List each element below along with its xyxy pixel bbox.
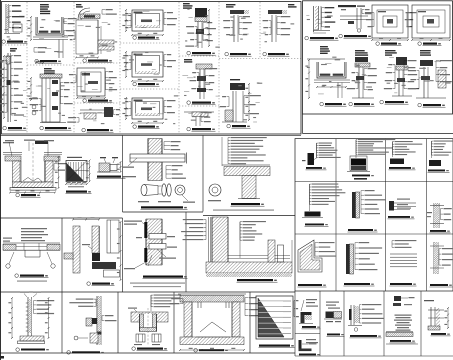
tee bottom circle <box>357 29 360 32</box>
P5 stepped slabs <box>98 40 114 44</box>
H1b title <box>299 354 316 356</box>
panel C3 title <box>132 347 136 351</box>
cell G5 dark pile cap bar <box>305 212 321 217</box>
detail panel R6 dense section <box>355 50 365 51</box>
grid cell G6 wall detail <box>352 192 356 218</box>
shaft dark floor slab <box>92 262 116 269</box>
pool dims <box>11 298 13 338</box>
panel P7 title <box>82 128 86 132</box>
P16 base step <box>225 110 233 121</box>
middle-left bottom border <box>0 217 123 219</box>
detail panel P8 plan view <box>132 10 163 31</box>
pipe flange disks <box>162 184 166 196</box>
shaft lower box <box>104 270 120 277</box>
pit mound <box>200 322 212 332</box>
B1 slab hatched ends <box>3 242 60 244</box>
cell G10 title <box>344 283 370 285</box>
pipe leaders lower <box>165 166 167 179</box>
panel R3 title <box>376 42 380 46</box>
shaft right wall <box>92 226 99 253</box>
panel C1 title <box>16 348 20 352</box>
roof column stem <box>242 176 256 199</box>
shaft left ground slab <box>64 253 73 259</box>
detail panel R2 drain tee detail <box>338 5 356 7</box>
grid cell G8 steel plate column <box>433 203 435 228</box>
panel P2 title <box>3 126 7 130</box>
passage mid cluster <box>92 318 97 324</box>
top-left dashed column dividers <box>26 2 28 134</box>
panel B3 title <box>143 276 183 278</box>
roof slab hatched section <box>222 164 270 166</box>
detail panel M5 roof slab text list <box>227 138 229 164</box>
detail panel C4 sump pit detail <box>178 293 246 295</box>
detail panel C2 passage node <box>96 296 98 345</box>
grate dims <box>89 161 91 182</box>
bottom band borders <box>0 352 295 354</box>
detail panel P12 joint section dense <box>184 59 192 60</box>
panel P4 title <box>40 126 44 130</box>
pit floor finish lines <box>3 152 22 154</box>
cell G2 dark membrane block <box>350 156 367 171</box>
panel M2 title <box>66 191 87 193</box>
middle band vertical dividers <box>122 135 124 212</box>
detail panel P2 tall narrow wall section <box>10 48 17 49</box>
panel M3 title <box>97 176 121 178</box>
panel P3 title <box>35 59 39 63</box>
sleeve pipe upper <box>149 234 166 240</box>
detail panel P9 plan view <box>132 52 163 77</box>
right grid frame <box>295 139 453 291</box>
C3 dip channel <box>143 314 154 328</box>
cell G1 title <box>306 167 322 169</box>
grid cell G11 layered lines detail <box>391 241 393 248</box>
pipe end view circles <box>209 184 221 196</box>
P5 room rect <box>76 20 98 54</box>
cell G5 title <box>305 224 324 226</box>
cell G7 title <box>388 216 410 218</box>
panel P12 title <box>187 101 191 105</box>
panel M5 title <box>231 203 260 205</box>
shaft wrap cluster <box>92 253 100 261</box>
panel M5 subtitle <box>213 210 274 211</box>
pipe end view circle <box>175 185 185 195</box>
shaft label <box>82 244 90 245</box>
C3 text list <box>150 295 152 307</box>
panel B2 title <box>87 282 91 286</box>
cell G4 dark block <box>429 160 441 166</box>
pit posts <box>197 302 199 308</box>
pit centerline <box>32 143 34 190</box>
detail panel P5 cove corner detail <box>76 4 81 5</box>
detail H5 mini section <box>430 307 432 330</box>
pool top labels <box>20 292 29 293</box>
panel P16 title <box>227 124 231 128</box>
corner text list center <box>239 222 241 241</box>
H2 figure <box>326 312 334 319</box>
right grid vertical dividers <box>335 139 337 291</box>
cell G2 title <box>352 175 370 177</box>
bottom-right divider <box>420 291 422 356</box>
pit dims <box>58 157 60 188</box>
passage marker circle <box>74 336 78 340</box>
detail panel R5 trough section <box>320 46 328 47</box>
shaft right dim <box>120 222 122 280</box>
panel C2 title <box>67 351 71 355</box>
right grid horizontal dividers <box>295 181 453 183</box>
sleeve labels <box>124 221 142 222</box>
detail H1b side wall mini <box>306 339 316 340</box>
detail panel P10 plan view <box>132 98 163 119</box>
panel P6 title <box>83 99 87 103</box>
grid cell G1 floor slab detail <box>308 153 315 165</box>
panel R1 title <box>305 36 309 40</box>
H5 title <box>431 333 446 335</box>
corner text list left <box>205 220 207 240</box>
pit leaders right <box>53 164 55 171</box>
plan panel title <box>133 82 137 86</box>
wall label left <box>124 176 136 177</box>
detail panel P11 joint section dense <box>183 3 190 4</box>
detail panel P16 tall wall waterproof section <box>230 79 240 80</box>
pool waterstop ticks <box>26 302 28 304</box>
panel B4 title <box>237 279 273 281</box>
detail panel M3 grate edge detail <box>100 157 106 158</box>
detail panel M4 pipe through wall <box>148 139 162 181</box>
panel P11 title <box>187 51 191 55</box>
detail panel P1 wall section <box>5 4 7 33</box>
shaft top dim <box>73 219 99 221</box>
panel M1 title <box>16 193 20 197</box>
panel C4 title <box>194 349 198 353</box>
detail panel R8 dense section <box>420 50 431 51</box>
construction tick marks right block <box>316 19 320 21</box>
B1 left labels <box>3 238 12 239</box>
detail H3 wall mini <box>350 305 352 325</box>
grid cell G10 wall detail <box>346 244 350 274</box>
shaft right column <box>107 220 119 253</box>
panel P13 title <box>187 127 191 131</box>
panel B3 notes <box>130 283 185 284</box>
panel P14 title <box>225 52 229 56</box>
bottom-right divider <box>319 291 321 356</box>
corner floor liner lines <box>228 255 290 257</box>
bottom-right divider <box>343 291 345 356</box>
bottom-right block frame lines <box>294 291 296 356</box>
panel C5 title <box>259 345 290 347</box>
corner wall hatched <box>212 217 228 265</box>
cell G9 title <box>298 284 322 286</box>
grid cell G7 wall run detail <box>389 201 394 211</box>
label above sump <box>3 142 14 143</box>
grate diagonal dark steps <box>67 163 85 181</box>
H1a pile figure <box>301 312 312 315</box>
grid cell G3 spec detail <box>392 142 394 155</box>
pipe body <box>130 154 185 162</box>
H4 layered floor strip <box>386 331 413 333</box>
C3 piers <box>136 334 145 342</box>
passage bottom block <box>90 333 98 343</box>
pipe leaders upper <box>163 142 165 150</box>
detail H1a pile head mini <box>306 299 317 300</box>
panel R6 title <box>349 102 353 106</box>
pit walls <box>13 161 21 182</box>
H4 title with underline <box>390 340 411 342</box>
pit leaders <box>244 298 246 316</box>
grid cell G2 membrane lap detail <box>355 140 357 155</box>
cell G3 title <box>389 167 411 169</box>
middle row2 borders <box>0 291 295 293</box>
grid cell G9 sloped joint detail <box>298 240 322 272</box>
pit bottom slab <box>13 182 54 188</box>
panel R5 title <box>320 102 324 106</box>
detail panel P7 corner joint detail <box>80 109 104 111</box>
pit walls <box>184 302 192 337</box>
H4 centered spec text <box>395 315 412 316</box>
middle band top border <box>0 134 301 136</box>
cell G8 title <box>430 230 446 232</box>
detail panel P3 trough section <box>40 4 49 5</box>
corner pebble bed <box>206 273 292 277</box>
pool bottom slab <box>20 336 44 341</box>
grate bars <box>67 162 69 180</box>
passage leaders right <box>101 316 103 321</box>
shaft left wall <box>73 226 80 273</box>
sleeve pipe lower <box>149 244 166 250</box>
H3 title <box>350 335 377 337</box>
chart triangle <box>258 298 284 337</box>
top-left dashed row dividers <box>2 44 27 46</box>
C3 slab hatched <box>131 312 168 322</box>
detail H2 mini <box>326 302 339 303</box>
detail panel P15 corner joint <box>288 4 294 5</box>
H4 mini figure <box>394 296 401 301</box>
plan panel title <box>133 125 137 129</box>
grid cell G4 spec detail <box>431 141 433 155</box>
panel P5 title <box>83 59 87 63</box>
pipe label left <box>128 158 137 166</box>
top-right lower strip <box>303 133 453 135</box>
pool leaders right <box>33 301 35 314</box>
pipe flange cylinder <box>141 185 147 196</box>
panel M4 title <box>141 206 183 208</box>
cell G11 title <box>390 283 412 285</box>
grid cell G5 hand-dug pile text <box>309 184 311 204</box>
B1 under channel <box>25 250 40 257</box>
bottom-right divider <box>383 291 385 356</box>
passage top labels <box>95 299 97 306</box>
corner floor slab <box>206 262 292 273</box>
detail panel P13 small joint <box>184 111 214 113</box>
cell G4 title <box>428 170 445 172</box>
H3 marker <box>354 328 358 332</box>
cell G3 dark block <box>390 159 404 165</box>
B1 marker circles <box>6 264 10 268</box>
top-left block frame <box>2 2 302 135</box>
panel B1 subtitle <box>17 281 47 282</box>
C3 centerline <box>147 308 149 345</box>
construction tick marks <box>7 36 10 37</box>
panel R7 title <box>380 100 384 104</box>
detail panel C5 concrete pour chart <box>256 296 293 339</box>
corner wall liner lines <box>208 217 210 262</box>
sleeve bottom leaders <box>135 262 146 268</box>
pool wall <box>27 297 29 336</box>
panel B1 title <box>15 274 19 278</box>
waterstop strips <box>144 222 147 238</box>
corner right post <box>268 240 275 262</box>
sheet left edge <box>0 0 2 360</box>
H1b figure <box>299 340 302 351</box>
H1a title <box>302 326 316 328</box>
pit gravel mound <box>23 178 28 182</box>
panel R8 title <box>418 103 422 107</box>
plan panel title <box>133 36 137 40</box>
cell G12 title <box>430 284 448 286</box>
panel R2 title <box>339 34 343 38</box>
flange labels <box>138 201 149 202</box>
tee pipe vertical <box>356 8 358 29</box>
cell G6 title <box>348 229 373 231</box>
H2 title <box>327 334 340 336</box>
B1 joint center strip <box>16 246 47 248</box>
panel P15 title <box>263 52 267 56</box>
detail panel P6 plan joint detail <box>77 68 105 96</box>
detail panel R4 plan view <box>412 5 450 38</box>
grid cell G12 figure detail <box>433 242 435 274</box>
detail panel M2 grate plan <box>67 157 82 158</box>
pit top labels <box>5 140 14 141</box>
top-right block frame <box>303 1 453 114</box>
panel R4 title <box>418 42 422 46</box>
detail panel R7 dense section <box>385 50 396 51</box>
bottom-left corner mark <box>0 356 4 359</box>
detail panel R3 plan view <box>372 5 408 38</box>
detail panel P4 wall assembly <box>44 68 52 69</box>
pit top slabs hatched <box>5 156 21 161</box>
detail panel R1 embedded part section <box>313 6 315 32</box>
B1 center text block <box>21 228 47 229</box>
panel P1 title <box>2 40 6 44</box>
detail panel P14 corner joint <box>226 4 235 5</box>
sleeve wall column <box>146 219 162 265</box>
